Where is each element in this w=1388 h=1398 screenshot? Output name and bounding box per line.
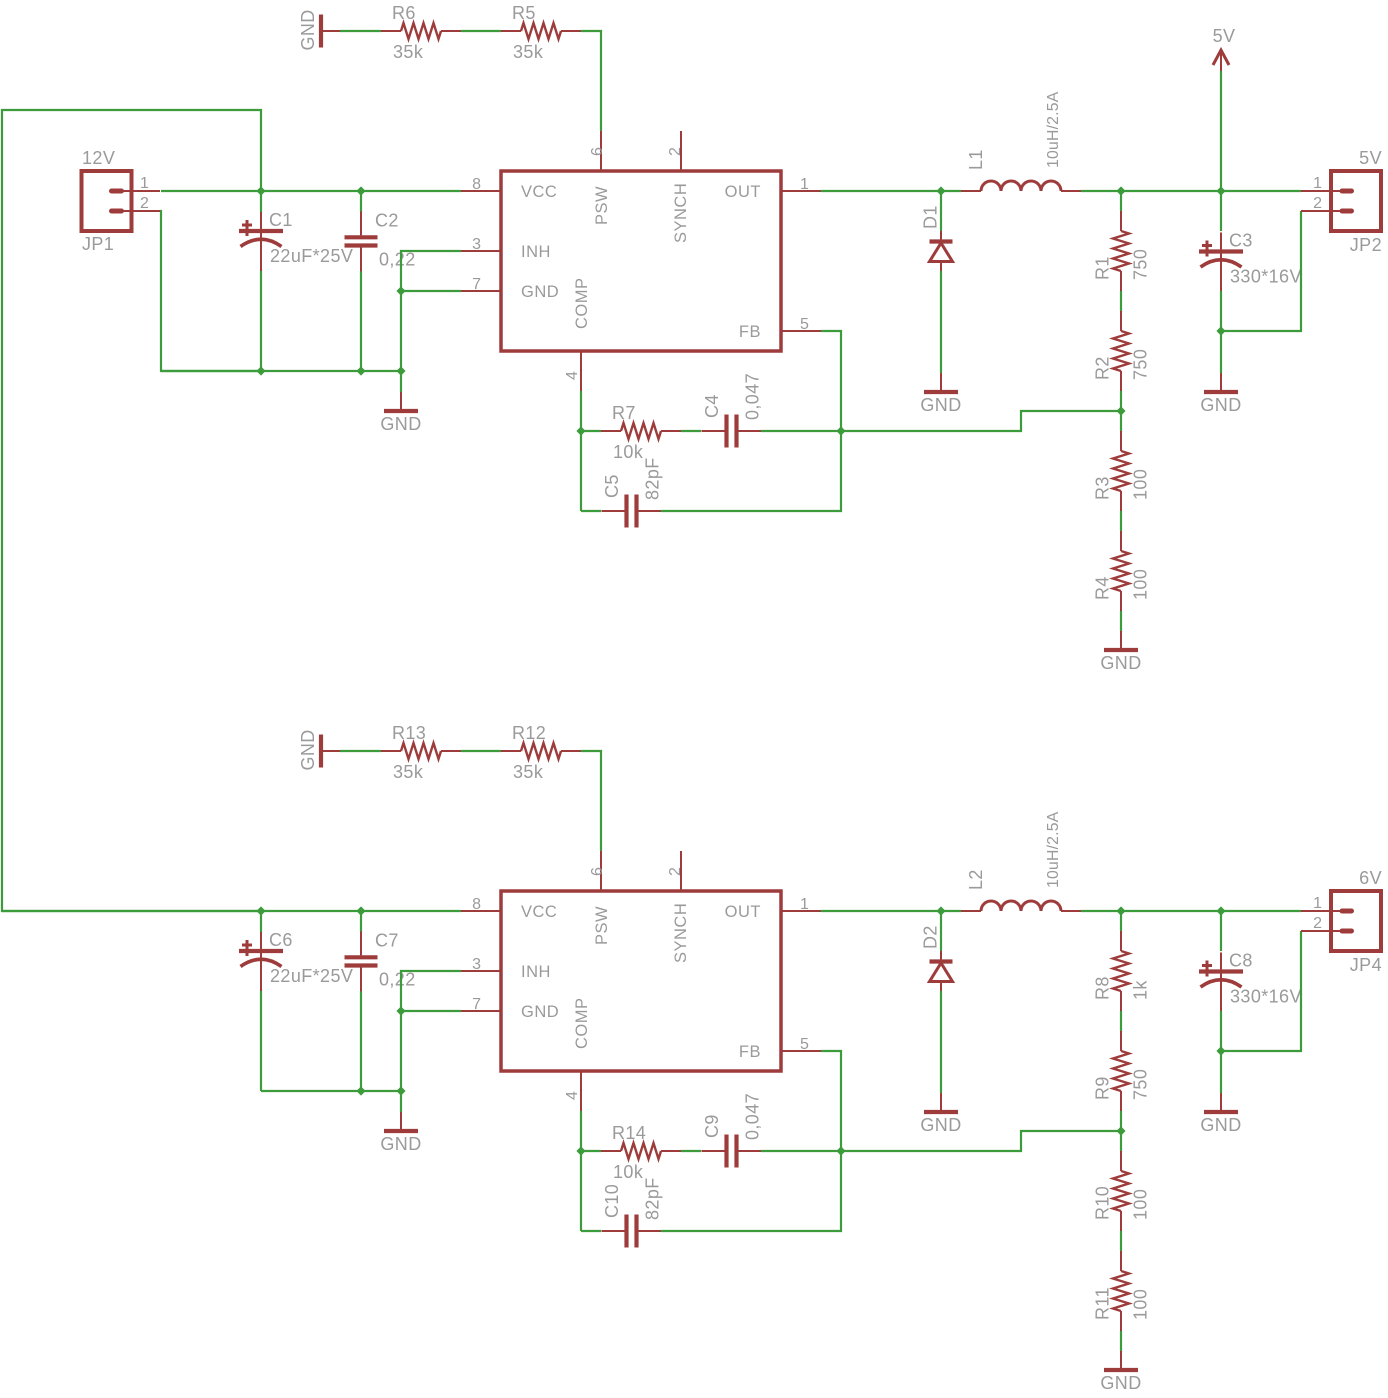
wire: [1120, 391, 1122, 431]
resistor R14: [601, 1123, 681, 1182]
wire: [1120, 291, 1122, 311]
pin 4 COMP: [564, 998, 591, 1112]
node VCC-C2: [356, 186, 365, 195]
wire: [1120, 1111, 1122, 1151]
svg-text:R7: R7: [612, 403, 636, 423]
capacitor C10: [602, 1177, 663, 1247]
svg-text:330*16V: 330*16V: [1230, 987, 1302, 1007]
svg-text:OUT: OUT: [725, 903, 761, 921]
svg-text:100: 100: [1131, 569, 1151, 600]
resistor R13: [381, 723, 461, 782]
node COMP: [576, 426, 585, 435]
svg-text:35k: 35k: [513, 42, 544, 62]
pin 8 VCC: [461, 896, 557, 921]
node divider tap: [1116, 1126, 1125, 1135]
wire: [1220, 331, 1222, 373]
svg-text:C4: C4: [702, 394, 722, 418]
svg-text:R12: R12: [512, 723, 546, 743]
svg-text:5: 5: [800, 316, 809, 333]
svg-text:4: 4: [564, 371, 581, 380]
node OUT-C: [1216, 906, 1225, 915]
svg-text:750: 750: [1131, 349, 1151, 380]
diode D1: [921, 205, 953, 271]
wire: [940, 911, 942, 951]
svg-text:2: 2: [140, 195, 149, 212]
wire: [1120, 1011, 1122, 1031]
svg-text:1k: 1k: [1131, 980, 1151, 1000]
svg-text:22uF*25V: 22uF*25V: [270, 246, 353, 266]
node VCC-C2: [356, 906, 365, 915]
wire: [340, 750, 381, 752]
capacitor C8: [1199, 951, 1302, 1012]
svg-text:R1: R1: [1093, 256, 1113, 280]
svg-text:8: 8: [472, 896, 481, 913]
node gnd rail: [396, 1086, 405, 1095]
svg-text:GND: GND: [298, 729, 318, 770]
svg-text:GND: GND: [1200, 395, 1241, 415]
wire: [940, 191, 942, 231]
wire: [1120, 511, 1122, 531]
svg-text:35k: 35k: [513, 762, 544, 782]
wire feedback tap: [841, 1131, 1121, 1151]
wire: [461, 30, 501, 32]
svg-text:GND: GND: [1100, 1373, 1141, 1393]
pin 1 OUT: [725, 176, 821, 201]
node gnd rail C2: [356, 1086, 365, 1095]
node COMP: [576, 1146, 585, 1155]
wire: [260, 191, 262, 213]
wire: [761, 430, 841, 432]
wire: [1220, 291, 1222, 331]
wire FB: [821, 331, 841, 431]
svg-text:2: 2: [1313, 915, 1322, 932]
svg-text:C6: C6: [269, 930, 293, 950]
pin 2 SYNCH: [667, 851, 690, 963]
wire: [360, 191, 362, 212]
wire: [1120, 1231, 1122, 1251]
svg-text:8: 8: [472, 176, 481, 193]
wire: [260, 270, 262, 371]
svg-text:R14: R14: [612, 1123, 646, 1143]
resistor R2: [1093, 311, 1151, 391]
wire ground rail: [261, 1090, 401, 1092]
resistor R4: [1093, 531, 1151, 611]
svg-text:10k: 10k: [613, 1162, 644, 1182]
svg-text:C7: C7: [375, 930, 399, 950]
capacitor C5: [602, 457, 663, 527]
capacitor C9: [702, 1093, 763, 1168]
pin 8 VCC: [461, 176, 557, 201]
svg-text:COMP: COMP: [573, 278, 591, 330]
pin 6 PSW: [589, 131, 611, 225]
inductor L1: [961, 91, 1081, 191]
svg-text:GND: GND: [380, 414, 421, 434]
node divider tap: [1116, 406, 1125, 415]
svg-text:10k: 10k: [613, 442, 644, 462]
wire COMP: [580, 391, 582, 511]
svg-text:GND: GND: [1100, 653, 1141, 673]
svg-text:COMP: COMP: [573, 998, 591, 1050]
svg-text:JP2: JP2: [1350, 235, 1382, 255]
svg-text:R5: R5: [512, 3, 536, 23]
svg-text:R9: R9: [1093, 1076, 1113, 1100]
wire OUT after inductor: [1081, 910, 1301, 912]
svg-text:GND: GND: [298, 9, 318, 50]
svg-text:5V: 5V: [1213, 26, 1236, 46]
svg-text:R6: R6: [392, 3, 416, 23]
svg-text:C9: C9: [702, 1114, 722, 1138]
svg-text:3: 3: [472, 236, 481, 253]
svg-text:1: 1: [1313, 175, 1322, 192]
wire: [1220, 1051, 1222, 1093]
node OUT-R: [1116, 906, 1125, 915]
wire: [260, 911, 262, 933]
svg-text:100: 100: [1131, 1189, 1151, 1220]
svg-text:GND: GND: [1200, 1115, 1241, 1135]
wire VCC rail: [2, 910, 461, 912]
wire: [360, 271, 362, 371]
svg-text:0,22: 0,22: [379, 249, 416, 269]
node OUT-R: [1116, 186, 1125, 195]
wire INH: [401, 251, 461, 371]
wire: [360, 991, 362, 1091]
svg-text:GND: GND: [521, 1003, 559, 1021]
svg-text:100: 100: [1131, 469, 1151, 500]
wire: [400, 1091, 402, 1112]
connector JP2: [1301, 148, 1382, 255]
svg-text:SYNCH: SYNCH: [672, 183, 690, 243]
diode D2: [921, 925, 953, 991]
wire OUT after inductor: [1081, 190, 1301, 192]
svg-text:2: 2: [667, 867, 684, 876]
capacitor C3: [1199, 231, 1302, 292]
wire: [1220, 1011, 1222, 1051]
svg-text:VCC: VCC: [521, 183, 557, 201]
IC regulator body: [501, 171, 781, 351]
node INH-GND: [396, 286, 405, 295]
wire: [1120, 611, 1122, 631]
wire FB: [821, 1051, 841, 1151]
node OUT-C: [1216, 186, 1225, 195]
svg-text:750: 750: [1131, 249, 1151, 280]
node out-gnd: [1216, 1046, 1225, 1055]
pin 1 OUT: [725, 896, 821, 921]
svg-text:1: 1: [800, 896, 809, 913]
svg-text:FB: FB: [739, 1043, 761, 1061]
pin 7 GND: [461, 996, 559, 1021]
svg-text:GND: GND: [920, 1115, 961, 1135]
wire COMP: [580, 1111, 582, 1231]
pin 4 COMP: [564, 278, 591, 392]
svg-text:7: 7: [472, 276, 481, 293]
node VCC-C1: [256, 906, 265, 915]
wire: [581, 1230, 601, 1232]
wire 12V feed from JP1 to both converters: [2, 110, 261, 911]
svg-text:L2: L2: [966, 869, 986, 890]
svg-text:1: 1: [1313, 895, 1322, 912]
svg-text:1: 1: [800, 176, 809, 193]
svg-text:L1: L1: [966, 149, 986, 170]
resistor R3: [1093, 431, 1151, 511]
svg-text:R10: R10: [1093, 1186, 1113, 1220]
wire: [581, 1150, 601, 1152]
wire: [340, 30, 381, 32]
ground: [380, 392, 421, 434]
pin 7 GND: [461, 276, 559, 301]
connector JP4: [1301, 868, 1382, 975]
wire: [681, 1150, 701, 1152]
wire OUT: [821, 190, 961, 192]
svg-text:100: 100: [1131, 1289, 1151, 1320]
wire JP1 pin2 to ground rail: [160, 211, 261, 371]
wire: [581, 751, 601, 851]
node OUT-D: [936, 906, 945, 915]
ground: [298, 729, 340, 770]
svg-text:1: 1: [140, 175, 149, 192]
svg-text:INH: INH: [521, 963, 551, 981]
wire: [1220, 911, 1222, 951]
wire: [761, 1150, 841, 1152]
svg-text:6V: 6V: [1359, 868, 1382, 888]
svg-text:C10: C10: [602, 1184, 622, 1218]
svg-text:PSW: PSW: [593, 906, 611, 945]
svg-text:5V: 5V: [1359, 148, 1382, 168]
wire: [581, 510, 601, 512]
svg-text:330*16V: 330*16V: [1230, 267, 1302, 287]
pin 6 PSW: [589, 851, 611, 945]
svg-text:D1: D1: [921, 205, 941, 229]
svg-text:R8: R8: [1093, 976, 1113, 1000]
wire: [940, 271, 942, 373]
ground: [1200, 1093, 1241, 1135]
node gnd rail C2: [356, 366, 365, 375]
pin 5 FB: [739, 316, 821, 341]
node OUT-D: [936, 186, 945, 195]
node gnd rail C1: [256, 366, 265, 375]
wire OUT: [821, 910, 961, 912]
svg-text:6: 6: [589, 147, 606, 156]
wire GND pin: [401, 290, 461, 292]
svg-text:D2: D2: [921, 925, 941, 949]
svg-text:OUT: OUT: [725, 183, 761, 201]
wire: [461, 750, 501, 752]
resistor R12: [501, 723, 581, 782]
ground: [380, 1112, 421, 1154]
wire: [360, 911, 362, 932]
svg-text:4: 4: [564, 1091, 581, 1100]
capacitor C7: [345, 930, 416, 991]
wire feedback tap: [841, 411, 1121, 431]
svg-text:C5: C5: [602, 474, 622, 498]
wire: [260, 990, 262, 1091]
node FB: [836, 1146, 845, 1155]
svg-text:2: 2: [667, 147, 684, 156]
svg-text:10uH/2.5A: 10uH/2.5A: [1045, 91, 1062, 168]
svg-text:0,047: 0,047: [743, 1093, 763, 1140]
svg-text:750: 750: [1131, 1069, 1151, 1100]
svg-text:35k: 35k: [393, 762, 424, 782]
power symbol 5V: [1213, 26, 1236, 191]
wire ground rail: [161, 370, 401, 372]
pin 3 INH: [461, 956, 551, 981]
ground: [298, 9, 340, 50]
pin 3 INH: [461, 236, 551, 261]
wire INH: [401, 971, 461, 1091]
svg-text:INH: INH: [521, 243, 551, 261]
svg-text:82pF: 82pF: [643, 457, 663, 500]
svg-text:6: 6: [589, 867, 606, 876]
connector JP1: [82, 148, 161, 254]
wire: [661, 431, 841, 511]
node VCC-C1: [256, 186, 265, 195]
svg-text:12V: 12V: [82, 148, 115, 168]
resistor R11: [1093, 1251, 1151, 1331]
resistor R6: [381, 3, 461, 62]
ground: [1100, 1351, 1141, 1393]
wire: [661, 1151, 841, 1231]
svg-text:0,047: 0,047: [743, 373, 763, 420]
svg-text:FB: FB: [739, 323, 761, 341]
svg-text:R4: R4: [1093, 576, 1113, 600]
svg-text:0,22: 0,22: [379, 969, 416, 989]
svg-text:GND: GND: [521, 283, 559, 301]
svg-text:C3: C3: [1229, 231, 1253, 251]
IC regulator body: [501, 891, 781, 1071]
capacitor C4: [702, 373, 763, 448]
pin 2 SYNCH: [667, 131, 690, 243]
svg-text:GND: GND: [920, 395, 961, 415]
capacitor C1: [239, 210, 353, 271]
capacitor C2: [345, 210, 416, 271]
svg-text:35k: 35k: [393, 42, 424, 62]
capacitor C6: [239, 930, 353, 991]
wire: [1120, 911, 1122, 931]
wire: [400, 371, 402, 392]
svg-text:R13: R13: [392, 723, 426, 743]
svg-text:PSW: PSW: [593, 186, 611, 225]
wire: [1120, 1331, 1122, 1351]
node FB: [836, 426, 845, 435]
svg-text:5: 5: [800, 1036, 809, 1053]
wire: [1221, 931, 1301, 1051]
pin 5 FB: [739, 1036, 821, 1061]
svg-text:SYNCH: SYNCH: [672, 903, 690, 963]
svg-text:R11: R11: [1093, 1287, 1113, 1320]
wire VCC rail: [161, 190, 461, 192]
svg-text:R3: R3: [1093, 476, 1113, 500]
wire: [1220, 191, 1222, 231]
svg-text:JP1: JP1: [82, 234, 114, 254]
ground: [920, 1093, 961, 1135]
node INH-GND: [396, 1006, 405, 1015]
svg-text:VCC: VCC: [521, 903, 557, 921]
resistor R5: [501, 3, 581, 62]
resistor R1: [1093, 211, 1151, 291]
svg-text:C2: C2: [375, 210, 399, 230]
wire: [681, 430, 701, 432]
resistor R10: [1093, 1151, 1151, 1231]
wire: [1221, 211, 1301, 331]
ground: [1200, 373, 1241, 415]
ground: [920, 373, 961, 415]
svg-text:R2: R2: [1093, 356, 1113, 380]
wire: [940, 991, 942, 1093]
wire: [581, 430, 601, 432]
resistor R7: [601, 403, 681, 462]
svg-text:10uH/2.5A: 10uH/2.5A: [1045, 811, 1062, 888]
wire: [1120, 191, 1122, 211]
svg-text:JP4: JP4: [1350, 955, 1382, 975]
wire GND pin: [401, 1010, 461, 1012]
ground: [1100, 631, 1141, 673]
svg-text:7: 7: [472, 996, 481, 1013]
svg-text:3: 3: [472, 956, 481, 973]
node out-gnd: [1216, 326, 1225, 335]
svg-text:22uF*25V: 22uF*25V: [270, 966, 353, 986]
svg-text:GND: GND: [380, 1134, 421, 1154]
svg-text:C8: C8: [1229, 951, 1253, 971]
node gnd rail: [396, 366, 405, 375]
svg-text:82pF: 82pF: [643, 1177, 663, 1220]
resistor R8: [1093, 931, 1151, 1011]
wire: [581, 31, 601, 131]
resistor R9: [1093, 1031, 1151, 1111]
svg-text:2: 2: [1313, 195, 1322, 212]
inductor L2: [961, 811, 1081, 911]
svg-text:C1: C1: [269, 210, 293, 230]
